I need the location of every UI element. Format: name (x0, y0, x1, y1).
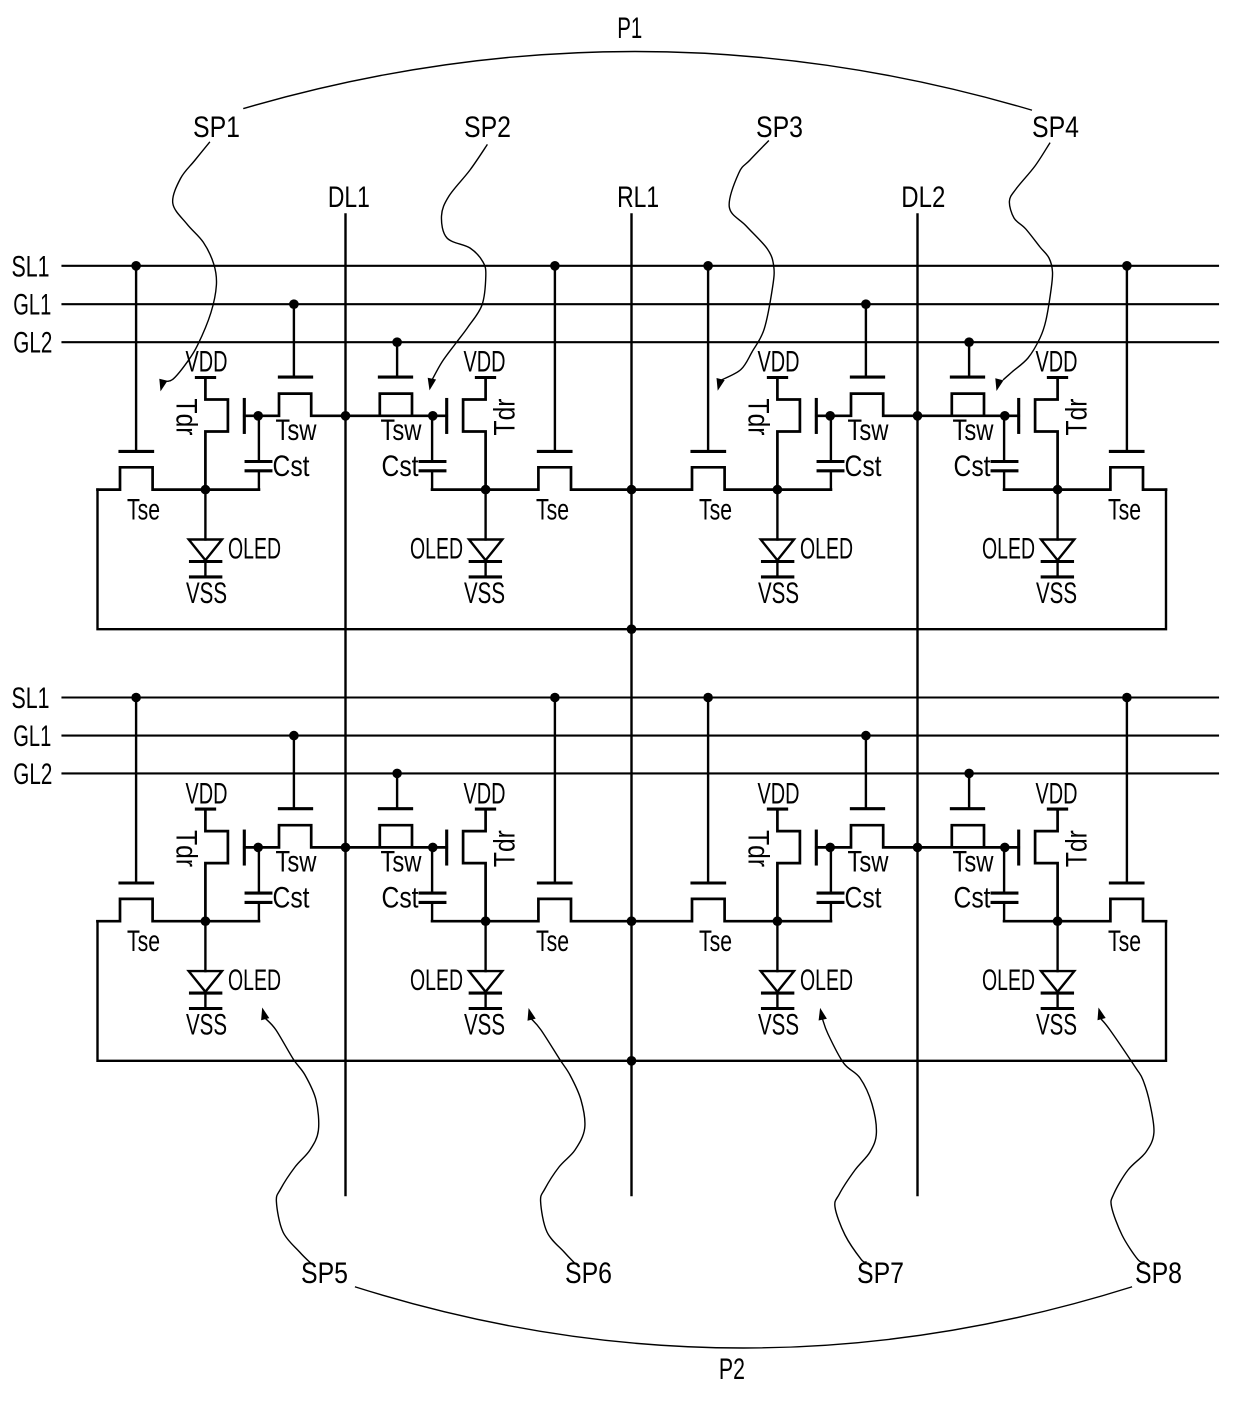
wire Tsw gate lead from GL2 (SP2) (396, 342, 398, 377)
arrowhead for SP1 (159, 379, 167, 392)
svg-text:P2: P2 (719, 1353, 745, 1386)
capacitor Cst (SP6) (420, 847, 445, 921)
leader line for SP4 (1004, 143, 1053, 379)
node A junction dot (SP6) (428, 843, 438, 853)
svg-text:Tsw: Tsw (953, 414, 994, 447)
power VDD terminal bar (SP3) (768, 376, 786, 379)
junction dot Tse gate on SL1 (SP8) (1122, 693, 1132, 703)
leader line for SP3 (722, 141, 775, 380)
junction dot Tsw drains on DL2 (row 1) (913, 411, 923, 421)
svg-text:Cst: Cst (382, 450, 420, 483)
junction dot Tsw gate on GL1 (SP5) (289, 731, 299, 741)
node A junction dot (SP5) (253, 843, 263, 853)
junction dot Tsw drains on DL1 (row 2) (341, 843, 351, 853)
svg-text:VSS: VSS (186, 577, 227, 610)
transistor Tdr (SP7) (777, 809, 800, 921)
capacitor Cst (SP5) (246, 847, 271, 921)
wire node A / transistor Tsw channel to data line (SP1) (244, 394, 345, 416)
capacitor Cst (SP1) (246, 416, 271, 490)
node B junction dot (SP8) (1053, 916, 1063, 926)
arrowhead for SP5 (261, 1008, 269, 1021)
svg-text:Tsw: Tsw (953, 846, 994, 879)
transistor Tse gate bar (SP6) (538, 881, 571, 884)
svg-text:GL1: GL1 (13, 720, 51, 753)
svg-text:Tdr: Tdr (1061, 398, 1094, 435)
power VDD terminal bar (SP6) (476, 808, 494, 811)
svg-text:DL2: DL2 (901, 181, 945, 214)
svg-text:Tdr: Tdr (741, 399, 774, 436)
node A junction dot (SP4) (1000, 411, 1010, 421)
transistor Tsw gate bar (SP4) (951, 376, 983, 379)
transistor Tse gate bar (SP8) (1110, 881, 1143, 884)
svg-text:Tdr: Tdr (489, 830, 522, 867)
leader line for SP7 (823, 1019, 877, 1262)
svg-text:Tse: Tse (536, 925, 569, 958)
ground VSS terminal (SP6) (470, 993, 500, 1008)
svg-text:SP1: SP1 (193, 111, 240, 144)
arrowhead for SP4 (995, 378, 1003, 391)
node B junction dot (SP2) (481, 485, 491, 495)
junction dot Tsw gate on GL1 (SP1) (289, 299, 299, 309)
net GL1 (row 1) horizontal gate line (63, 303, 1219, 305)
wire sense-line with transistor Tse channel (SP3) (632, 467, 831, 489)
transistor Tdr gate bar (SP5) (243, 831, 246, 864)
junction dot Tsw gate on GL1 (SP3) (861, 299, 871, 309)
svg-text:Tse: Tse (1108, 925, 1141, 958)
svg-text:Tse: Tse (1108, 493, 1141, 526)
transistor Tdr (SP6) (463, 809, 486, 921)
wire sense-line with transistor Tse channel (SP5) (98, 899, 259, 921)
svg-text:RL1: RL1 (617, 181, 659, 214)
svg-text:Cst: Cst (845, 450, 883, 483)
svg-text:Tsw: Tsw (381, 846, 422, 879)
transistor Tdr gate bar (SP1) (243, 400, 246, 433)
capacitor Cst (SP2) (420, 416, 445, 490)
wire Tsw gate lead from GL1 (SP1) (293, 304, 295, 377)
transistor Tse gate bar (SP5) (120, 881, 153, 884)
junction dot Tse gate on SL1 (SP4) (1122, 261, 1132, 271)
data line DL1 (vertical) (344, 215, 346, 1196)
svg-text:Tsw: Tsw (276, 846, 317, 879)
transistor Tsw gate bar (SP3) (851, 376, 883, 379)
ground VSS terminal (SP3) (763, 562, 793, 577)
transistor Tse gate bar (SP1) (120, 450, 153, 453)
junction dot Tsw gate on GL2 (SP2) (392, 337, 402, 347)
arrowhead for SP8 (1098, 1008, 1106, 1021)
transistor Tdr gate bar (SP4) (1017, 400, 1020, 433)
wire Tse gate lead from SL1 (SP8) (1126, 698, 1128, 884)
capacitor Cst (SP8) (992, 847, 1017, 921)
svg-text:VDD: VDD (758, 346, 800, 379)
power VDD terminal bar (SP1) (196, 376, 214, 379)
svg-text:SP6: SP6 (565, 1257, 612, 1290)
ground VSS terminal (SP8) (1042, 993, 1072, 1008)
wire Tsw gate lead from GL2 (SP8) (968, 773, 970, 808)
transistor Tsw gate bar (SP1) (279, 376, 311, 379)
OLED diode (SP5) (189, 921, 222, 993)
svg-text:VSS: VSS (186, 1009, 227, 1042)
transistor Tdr gate bar (SP2) (445, 400, 448, 433)
wire Tsw gate lead from GL1 (SP5) (293, 736, 295, 809)
svg-text:Tdr: Tdr (741, 830, 774, 867)
capacitor Cst (SP4) (992, 416, 1017, 490)
node B junction dot (SP3) (773, 485, 783, 495)
svg-text:VDD: VDD (186, 346, 228, 379)
junction dot sense line on RL1 (row 2) (627, 916, 637, 926)
svg-text:GL2: GL2 (13, 327, 52, 360)
svg-text:GL1: GL1 (13, 289, 51, 322)
svg-text:OLED: OLED (982, 533, 1035, 566)
junction dot Tse gate on SL1 (SP6) (550, 693, 560, 703)
node B junction dot (SP1) (201, 485, 211, 495)
brace arc for pixel P1 (244, 51, 1031, 110)
svg-text:SP2: SP2 (464, 111, 511, 144)
arrowhead for SP7 (819, 1008, 827, 1021)
power VDD terminal bar (SP5) (196, 808, 214, 811)
wire node A / transistor Tsw channel to data line (SP6) (346, 825, 447, 847)
brace arc for pixel P2 (356, 1287, 1132, 1348)
data line DL2 (vertical) (916, 215, 918, 1196)
arrowhead for SP6 (528, 1008, 536, 1021)
svg-text:VSS: VSS (758, 577, 799, 610)
wire sense-line with transistor Tse channel (SP4) (1004, 467, 1166, 489)
junction dot Tse gate on SL1 (SP5) (131, 693, 141, 703)
svg-text:Tse: Tse (127, 493, 160, 526)
junction dot Tsw gate on GL2 (SP4) (964, 337, 974, 347)
junction dot Tsw gate on GL1 (SP7) (861, 731, 871, 741)
wire Tse gate lead from SL1 (SP6) (554, 698, 556, 884)
node B junction dot (SP4) (1053, 485, 1063, 495)
svg-text:OLED: OLED (410, 533, 463, 566)
svg-text:Tsw: Tsw (848, 846, 889, 879)
svg-text:OLED: OLED (800, 964, 853, 997)
OLED diode (SP7) (761, 921, 794, 993)
svg-text:VSS: VSS (464, 1009, 505, 1042)
junction dot Tsw gate on GL2 (SP6) (392, 769, 402, 779)
svg-text:VDD: VDD (186, 777, 228, 810)
wire node A / transistor Tsw channel to data line (SP8) (918, 825, 1019, 847)
OLED diode (SP2) (469, 490, 502, 562)
transistor Tdr (SP1) (205, 378, 228, 490)
wire Tsw gate lead from GL1 (SP7) (865, 736, 867, 809)
junction dot Tse gate on SL1 (SP2) (550, 261, 560, 271)
leader line for SP1 (163, 142, 217, 381)
transistor Tdr gate bar (SP6) (445, 831, 448, 864)
svg-text:Tsw: Tsw (848, 414, 889, 447)
ground VSS terminal (SP7) (763, 993, 793, 1008)
node A junction dot (SP1) (253, 411, 263, 421)
transistor Tdr (SP4) (1035, 378, 1058, 490)
svg-text:VSS: VSS (464, 577, 505, 610)
svg-text:SP4: SP4 (1032, 111, 1079, 144)
OLED diode (SP6) (469, 921, 502, 993)
net SL1 (row 2) horizontal select line (63, 696, 1219, 698)
junction dot Tsw drains on DL2 (row 2) (913, 843, 923, 853)
ground VSS terminal (SP4) (1042, 562, 1072, 577)
wire Tse gate lead from SL1 (SP4) (1126, 266, 1128, 452)
wire Tse gate lead from SL1 (SP7) (707, 698, 709, 884)
svg-text:VSS: VSS (758, 1009, 799, 1042)
wire node A / transistor Tsw channel to data line (SP3) (816, 394, 917, 416)
svg-text:Cst: Cst (273, 882, 311, 915)
transistor Tse gate bar (SP3) (692, 450, 725, 453)
power VDD terminal bar (SP2) (476, 376, 494, 379)
transistor Tsw gate bar (SP6) (379, 807, 411, 810)
svg-text:VDD: VDD (758, 777, 800, 810)
svg-text:Cst: Cst (845, 882, 883, 915)
leader line for SP2 (432, 145, 487, 380)
node A junction dot (SP3) (825, 411, 835, 421)
wire sense-line routing loop (row 2) (98, 921, 1167, 1061)
node A junction dot (SP2) (428, 411, 438, 421)
svg-text:Cst: Cst (954, 450, 992, 483)
wire sense-line with transistor Tse channel (SP8) (1004, 899, 1166, 921)
node B junction dot (SP5) (201, 916, 211, 926)
wire Tse gate lead from SL1 (SP1) (135, 266, 137, 452)
svg-text:SP3: SP3 (756, 111, 803, 144)
transistor Tdr gate bar (SP7) (815, 831, 818, 864)
svg-text:Tdr: Tdr (169, 830, 202, 867)
node B junction dot (SP7) (773, 916, 783, 926)
transistor Tdr (SP5) (205, 809, 228, 921)
wire node A / transistor Tsw channel to data line (SP2) (346, 394, 447, 416)
svg-text:SL1: SL1 (12, 250, 50, 283)
svg-text:OLED: OLED (800, 533, 853, 566)
wire Tse gate lead from SL1 (SP2) (554, 266, 556, 452)
leader line for SP5 (266, 1019, 319, 1263)
wire sense-line routing loop (row 1) (98, 490, 1167, 630)
net GL2 (row 1) horizontal gate line (63, 341, 1219, 343)
arrowhead for SP2 (428, 378, 436, 391)
svg-text:OLED: OLED (410, 964, 463, 997)
junction dot sense line on RL1 (row 1) (627, 485, 637, 495)
OLED diode (SP8) (1041, 921, 1074, 993)
svg-text:Cst: Cst (273, 450, 311, 483)
wire node A / transistor Tsw channel to data line (SP5) (244, 825, 345, 847)
junction dot sense loop on RL1 bottom (row 1) (627, 624, 637, 634)
svg-text:Tdr: Tdr (169, 399, 202, 436)
transistor Tdr (SP2) (463, 378, 486, 490)
transistor Tsw gate bar (SP2) (379, 376, 411, 379)
svg-text:VSS: VSS (1036, 577, 1077, 610)
net GL2 (row 2) horizontal gate line (63, 772, 1219, 774)
junction dot Tse gate on SL1 (SP3) (703, 261, 713, 271)
svg-text:VDD: VDD (464, 346, 506, 379)
svg-text:GL2: GL2 (13, 758, 52, 791)
OLED diode (SP3) (761, 490, 794, 562)
node B junction dot (SP6) (481, 916, 491, 926)
ground VSS terminal (SP2) (470, 562, 500, 577)
power VDD terminal bar (SP7) (768, 808, 786, 811)
leader line for SP6 (532, 1019, 585, 1262)
wire Tsw gate lead from GL2 (SP6) (396, 773, 398, 808)
svg-text:VDD: VDD (464, 777, 506, 810)
wire Tse gate lead from SL1 (SP5) (135, 698, 137, 884)
wire node A / transistor Tsw channel to data line (SP4) (918, 394, 1019, 416)
svg-text:Tse: Tse (699, 925, 732, 958)
net GL1 (row 2) horizontal gate line (63, 735, 1219, 737)
svg-text:SL1: SL1 (12, 682, 50, 715)
svg-text:Tse: Tse (127, 925, 160, 958)
node A junction dot (SP8) (1000, 843, 1010, 853)
OLED diode (SP4) (1041, 490, 1074, 562)
svg-text:Tsw: Tsw (276, 414, 317, 447)
transistor Tsw gate bar (SP7) (851, 807, 883, 810)
transistor Tdr gate bar (SP8) (1017, 831, 1020, 864)
svg-text:VDD: VDD (1036, 777, 1078, 810)
wire sense-line with transistor Tse channel (SP1) (98, 467, 259, 489)
transistor Tse gate bar (SP4) (1110, 450, 1143, 453)
transistor Tdr gate bar (SP3) (815, 400, 818, 433)
svg-text:VDD: VDD (1036, 346, 1078, 379)
svg-text:P1: P1 (617, 12, 642, 45)
svg-text:OLED: OLED (228, 964, 281, 997)
transistor Tsw gate bar (SP5) (279, 807, 311, 810)
junction dot Tsw drains on DL1 (row 1) (341, 411, 351, 421)
wire node A / transistor Tsw channel to data line (SP7) (816, 825, 917, 847)
svg-text:Tdr: Tdr (1061, 830, 1094, 867)
transistor Tsw gate bar (SP8) (951, 807, 983, 810)
wire sense-line with transistor Tse channel (SP6) (432, 899, 631, 921)
ground VSS terminal (SP5) (191, 993, 221, 1008)
transistor Tdr (SP8) (1035, 809, 1058, 921)
junction dot Tse gate on SL1 (SP1) (131, 261, 141, 271)
svg-text:OLED: OLED (228, 533, 281, 566)
wire Tse gate lead from SL1 (SP3) (707, 266, 709, 452)
svg-text:Tdr: Tdr (489, 398, 522, 435)
svg-text:OLED: OLED (982, 964, 1035, 997)
svg-text:Cst: Cst (382, 882, 420, 915)
power VDD terminal bar (SP4) (1048, 376, 1066, 379)
ground VSS terminal (SP1) (191, 562, 221, 577)
transistor Tse gate bar (SP2) (538, 450, 571, 453)
wire Tsw gate lead from GL2 (SP4) (968, 342, 970, 377)
OLED diode (SP1) (189, 490, 222, 562)
capacitor Cst (SP3) (818, 416, 843, 490)
transistor Tdr (SP3) (777, 378, 800, 490)
net SL1 (row 1) horizontal select line (63, 265, 1219, 267)
junction dot sense loop on RL1 bottom (row 2) (627, 1056, 637, 1066)
svg-text:Tsw: Tsw (381, 414, 422, 447)
svg-text:DL1: DL1 (328, 181, 370, 214)
wire sense-line with transistor Tse channel (SP2) (432, 467, 631, 489)
junction dot Tse gate on SL1 (SP7) (703, 693, 713, 703)
svg-text:VSS: VSS (1036, 1009, 1077, 1042)
svg-text:Tse: Tse (536, 493, 569, 526)
read line RL1 (vertical) (630, 215, 632, 1196)
power VDD terminal bar (SP8) (1048, 808, 1066, 811)
svg-text:SP5: SP5 (301, 1257, 348, 1290)
node A junction dot (SP7) (825, 843, 835, 853)
capacitor Cst (SP7) (818, 847, 843, 921)
junction dot Tsw gate on GL2 (SP8) (964, 769, 974, 779)
svg-text:Cst: Cst (954, 882, 992, 915)
wire Tsw gate lead from GL1 (SP3) (865, 304, 867, 377)
svg-text:Tse: Tse (699, 493, 732, 526)
arrowhead for SP3 (717, 378, 725, 391)
wire sense-line with transistor Tse channel (SP7) (632, 899, 831, 921)
transistor Tse gate bar (SP7) (692, 881, 725, 884)
leader line for SP8 (1102, 1020, 1155, 1263)
